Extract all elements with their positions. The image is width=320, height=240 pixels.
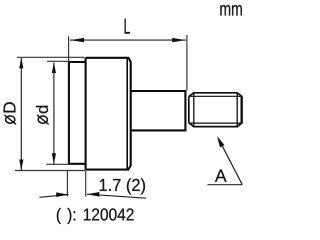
oD extension line top (17, 56, 85, 58)
mm unit label (220, 5, 242, 15)
oD arrow down (19, 160, 23, 171)
1.7 leader left (39, 195, 68, 198)
A leader line (220, 141, 243, 185)
1.7 arrow right pointing left (87, 192, 99, 197)
A label (215, 170, 227, 182)
1.7 extension line left (66, 171, 68, 197)
od label diameter symbol (38, 116, 47, 123)
oD dimension line (20, 58, 22, 170)
oD arrow up (19, 58, 23, 69)
od extension line bottom (46, 163, 70, 165)
oD label letter D (4, 102, 16, 112)
od dimension line (53, 63, 55, 164)
L arrow left (70, 38, 84, 42)
L dimension extension line left (68, 36, 70, 61)
thread chamfer lines (194, 93, 237, 127)
1.7 leader right (87, 194, 146, 198)
A leader arrowhead (217, 136, 224, 147)
oD extension line bottom (15, 170, 85, 172)
L dimension extension line right (186, 35, 188, 90)
main body (86, 58, 131, 170)
body right face edge line (126, 58, 128, 170)
1.7 (2) label (100, 178, 145, 194)
contact disc rim (69, 62, 86, 164)
od arrow up (52, 62, 56, 73)
oD label diameter symbol (6, 116, 15, 123)
part number note (57, 208, 134, 224)
1.7 arrow left pointing right (56, 192, 68, 197)
stem shaft (131, 91, 186, 130)
thread right end face emphasis (240, 96, 242, 123)
A underline (208, 184, 243, 186)
od label letter d (36, 106, 48, 113)
shaft shoulder (184, 90, 186, 131)
od arrow down (52, 153, 56, 164)
thread minor diameter lines (190, 96, 243, 123)
thread outline (189, 93, 242, 127)
L arrow right (172, 38, 186, 42)
1.7 extension line right (85, 171, 87, 197)
L label (125, 19, 130, 34)
L dimension line (70, 39, 186, 41)
od extension line top (47, 60, 70, 62)
